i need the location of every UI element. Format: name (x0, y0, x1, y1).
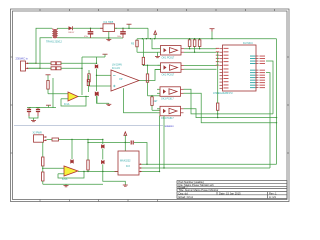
wire opamp output (139, 70, 161, 81)
wire 230VAC pin2 to transformer primary bottom (29, 38, 53, 69)
optocoupler OK2 (158, 63, 185, 73)
node C5 join (146, 164, 147, 165)
wire input bottom net (29, 67, 52, 69)
wire C5 to 5V drop (134, 143, 147, 165)
diode D4 (95, 92, 98, 96)
wire opto3 input feed (148, 95, 161, 97)
node link joins (159, 167, 165, 172)
frame ticks right (287, 57, 289, 153)
node R6 top (151, 95, 152, 96)
diode D6 (101, 144, 104, 148)
node cap rail (87, 142, 126, 143)
wire opamp1 output (78, 96, 89, 98)
svg-text:100n: 100n (117, 36, 121, 38)
svg-text:230VAC in: 230VAC in (16, 57, 29, 61)
supply T caps (46, 105, 51, 107)
wire opamp2 output (78, 171, 118, 173)
frame inner border (13, 11, 288, 200)
ground below regulator (106, 32, 111, 41)
wire R1B to divider (61, 67, 82, 69)
wire clamp middle (96, 69, 98, 91)
resistor R6 (151, 96, 153, 111)
optocoupler OK4 (157, 106, 184, 116)
resistor R7 (87, 140, 89, 172)
supply +5V symbol after regulator (127, 24, 132, 28)
wire OK2 outputs to MCU (184, 65, 217, 67)
node bottom rail joins (71, 139, 103, 140)
resistor R4 (146, 65, 148, 96)
svg-text:1N4007: 1N4007 (68, 32, 74, 34)
wire bottom input rail (59, 139, 103, 141)
wire transformer secondary bottom rail (57, 37, 123, 39)
svg-text:TRAN1 230/12: TRAN1 230/12 (46, 41, 62, 44)
wire 5V rail down (147, 28, 149, 38)
wire cap rail (88, 142, 130, 144)
MCU right pin names inside (250, 56, 256, 89)
op-amp IC1A (68, 92, 78, 101)
wire OK4 output link (184, 109, 277, 118)
frame outer border (11, 9, 290, 202)
MCU right pin labels (260, 56, 266, 89)
node rail junctions (142, 38, 213, 39)
svg-text:OK3 PC817: OK3 PC817 (161, 98, 174, 101)
resistor R9 pullup (193, 39, 196, 53)
ground IC3 (123, 185, 128, 186)
wire to IC3 ground (103, 172, 126, 186)
node D7 net (102, 171, 103, 172)
wire opamp2 minus input (58, 173, 64, 175)
wire D4 down (96, 96, 98, 103)
resistor R13 (42, 157, 44, 166)
wire R2 to opamp1 (48, 93, 68, 95)
wire divider drop (42, 142, 44, 157)
resistor R2 (47, 75, 49, 94)
svg-text:ECad: C/1 A: ECad: C/1 A (179, 195, 194, 199)
wire opamp2 feedback (58, 172, 84, 179)
supply +5V T symbol right (210, 29, 215, 39)
svg-text:A: 1/1: A: 1/1 (269, 195, 276, 199)
node divider tap (42, 168, 43, 169)
node C1 top (90, 28, 91, 29)
MCU right pins (256, 56, 259, 88)
wire OK2 inputs (155, 69, 158, 71)
frame ticks left (11, 57, 13, 153)
frame ticks top (40, 9, 275, 11)
svg-text:Isolation: Isolation (164, 124, 174, 128)
ground bottom left (64, 184, 69, 187)
node C2 top (122, 28, 123, 29)
capacitor C5 (131, 141, 133, 145)
resistor R1B series input (51, 67, 61, 70)
svg-text:IC4 7805: IC4 7805 (104, 21, 114, 24)
wire opamp input minus (89, 85, 111, 87)
resistor R11 above opamp1 (87, 75, 89, 92)
connector X2 (34, 135, 48, 142)
op-amp IC5 (64, 166, 78, 176)
wire transformer secondary top to diode (57, 27, 68, 29)
MCU IC2 (223, 45, 257, 91)
resistor R14 (42, 172, 44, 181)
capacitor C2 (120, 28, 126, 38)
svg-text:Rev: 1: Rev: 1 (269, 191, 277, 195)
node R4A tap (143, 65, 144, 66)
node primary bottom (39, 68, 40, 69)
diode D3 clamp (95, 91, 98, 95)
wire divider bottom (42, 181, 44, 184)
node R7 out (87, 171, 88, 172)
wire clamp bottom to ground (97, 96, 109, 104)
svg-text:Doc: dd: Doc: dd (179, 191, 189, 195)
title block (177, 180, 287, 199)
optocoupler OK3 (157, 87, 184, 97)
ground mid (106, 103, 111, 105)
svg-text:OK1 PC817: OK1 PC817 (162, 56, 175, 59)
resistor R10 pullup (198, 39, 201, 49)
svg-text:OK2 PC817: OK2 PC817 (162, 74, 175, 77)
MCU left pins (220, 49, 223, 89)
svg-text:OK4 PC817: OK4 PC817 (161, 117, 174, 120)
op-amp IC1B (111, 70, 139, 91)
wire D6 to D7 (102, 149, 104, 160)
wire divider mid (42, 166, 44, 172)
node feedback (83, 171, 84, 172)
diode D7 (101, 160, 104, 164)
resistor R12 (217, 52, 219, 117)
ground OK1 (155, 52, 160, 58)
node pullup joins (189, 38, 218, 53)
wire opamp to opto4 lower input (124, 88, 158, 113)
node gnd rail (108, 37, 109, 38)
svg-text:X2 PWR: X2 PWR (33, 132, 42, 135)
wire clamp column (96, 57, 98, 64)
transformer TR1 (53, 28, 57, 38)
diode D1 (69, 26, 73, 30)
wire R5 to OK1 lower (137, 51, 158, 53)
wire MCU pin to right drop 1 (266, 61, 273, 114)
node rail drop join (276, 117, 277, 124)
wire R1A to clamp node (61, 62, 97, 64)
svg-text:470u: 470u (84, 36, 88, 38)
node R12 joins (217, 113, 218, 118)
wire OK1 outputs to MCU (184, 48, 217, 50)
svg-text:IC3: IC3 (126, 165, 130, 168)
capacitor C1 (88, 28, 94, 38)
wire OK3 output link (184, 89, 274, 114)
resistor R1A series input (51, 62, 61, 65)
isolation barrier line (14, 124, 163, 126)
wire caps top feed (29, 107, 53, 109)
wire opto3 drop (163, 116, 165, 168)
capacitor C4 (36, 108, 40, 117)
svg-text:OP: OP (119, 78, 123, 81)
capacitor C3 (27, 108, 31, 117)
wire feedback loop (61, 97, 86, 107)
node OK2 pullup (199, 48, 200, 49)
resistor R8 pullup (188, 39, 191, 49)
node R4 tap (147, 65, 148, 66)
node vcc tap (128, 28, 129, 29)
wire D5 up (71, 140, 73, 160)
wire MCU pin to right drop 2 (266, 73, 270, 168)
regulator IC4 7805 (100, 24, 117, 32)
fuse F1 (47, 138, 59, 141)
wire divider vertical (81, 57, 83, 95)
supply 12V arrow (124, 132, 127, 143)
optocoupler OK1 (158, 46, 185, 56)
wire opto4 input feed (152, 109, 160, 111)
wire D7 to opamp out net (102, 164, 104, 171)
svg-text:ATMEGA328P-PU: ATMEGA328P-PU (213, 92, 233, 95)
supply arrow node (154, 31, 157, 39)
wire opamp2 plus input (43, 167, 64, 169)
node opamp1 out (85, 96, 86, 97)
node input plus (96, 75, 97, 76)
wire regulator out (115, 27, 149, 29)
wire opto4 in drop (159, 116, 161, 172)
node clamp top (96, 63, 97, 64)
resistor R3 (88, 70, 90, 86)
wire opamp1 left rail (53, 78, 56, 108)
supply T symbol left (46, 74, 51, 76)
wire serial link top (142, 163, 277, 165)
supply symbol mid (103, 54, 108, 57)
diode D2 clamp (95, 64, 98, 68)
wire OK3 lower output link (184, 93, 277, 122)
node divider (81, 68, 82, 69)
wire opto2 top input (143, 64, 161, 66)
wire top reference net (82, 56, 105, 58)
node primary top (35, 63, 36, 64)
wire D6 top (102, 140, 104, 145)
wire serial link mid (142, 167, 271, 169)
connector X1 (21, 61, 30, 71)
MCU left pin labels (216, 48, 219, 66)
wire 230VAC pin1 to transformer primary (29, 28, 53, 63)
svg-text:IC1A: IC1A (64, 103, 70, 106)
MCU left pin names inside (224, 48, 229, 89)
wire 5V distribution rail (137, 38, 277, 40)
svg-text:MAX3232: MAX3232 (120, 159, 131, 162)
wire opamp input plus (97, 74, 112, 76)
wire diode to regulator (73, 27, 104, 29)
wire input top net (29, 62, 52, 64)
svg-text:IC1 2/4: IC1 2/4 (112, 67, 120, 70)
ground caps (31, 118, 36, 122)
resistor R5 (136, 39, 138, 53)
svg-text:IC2 MCU: IC2 MCU (243, 42, 253, 45)
diode D5 (70, 159, 73, 163)
frame ticks bottom (40, 200, 157, 202)
svg-text:Date: 15 Jan 2015: Date: 15 Jan 2015 (219, 191, 241, 195)
wire 5V rail right drop (276, 39, 278, 165)
resistor R4A (142, 39, 144, 66)
IC3 serial box (115, 151, 143, 175)
wire ground rail bottom (43, 183, 103, 185)
wire rail to OK1 (152, 39, 158, 49)
svg-text:4k7: 4k7 (154, 100, 159, 103)
wire caps common (29, 116, 38, 118)
wire opamp1 minus input (61, 98, 68, 100)
wire serial link low (142, 171, 160, 173)
wire IC3 top pin (124, 143, 126, 152)
